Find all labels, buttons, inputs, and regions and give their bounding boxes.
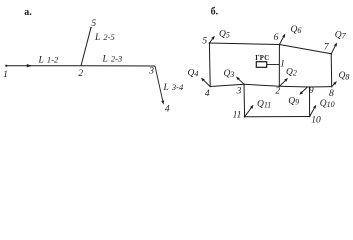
svg-text:4: 4	[205, 89, 210, 99]
svg-text:5: 5	[91, 19, 96, 29]
svg-text:Q9: Q9	[288, 96, 299, 106]
svg-text:L 1-2: L 1-2	[38, 54, 60, 65]
svg-text:Q8: Q8	[339, 71, 350, 81]
svg-text:а.: а.	[24, 7, 32, 18]
svg-text:Q11: Q11	[257, 99, 271, 109]
svg-text:Q6: Q6	[291, 25, 302, 35]
svg-text:10: 10	[311, 116, 321, 126]
svg-text:8: 8	[329, 89, 334, 99]
svg-text:L 2-3: L 2-3	[102, 53, 123, 64]
svg-text:5: 5	[202, 36, 207, 46]
svg-text:Q5: Q5	[219, 29, 230, 39]
svg-text:3: 3	[148, 67, 154, 77]
svg-text:ГРС: ГРС	[255, 55, 269, 62]
svg-text:Q2: Q2	[286, 67, 297, 77]
svg-text:L 2-5: L 2-5	[94, 32, 115, 43]
svg-text:2: 2	[78, 69, 83, 79]
svg-text:L 3-4: L 3-4	[163, 82, 185, 93]
svg-text:Q4: Q4	[188, 68, 199, 78]
svg-text:1: 1	[280, 60, 285, 70]
svg-text:Q10: Q10	[320, 99, 335, 109]
svg-text:б.: б.	[211, 6, 219, 17]
svg-text:1: 1	[3, 70, 8, 80]
svg-text:2: 2	[275, 87, 280, 97]
svg-text:6: 6	[274, 33, 279, 43]
svg-text:Q7: Q7	[335, 30, 347, 40]
svg-text:9: 9	[309, 86, 314, 96]
svg-text:Q3: Q3	[224, 69, 235, 79]
svg-text:4: 4	[165, 105, 170, 115]
svg-text:11: 11	[233, 111, 242, 121]
svg-text:3: 3	[236, 87, 242, 97]
